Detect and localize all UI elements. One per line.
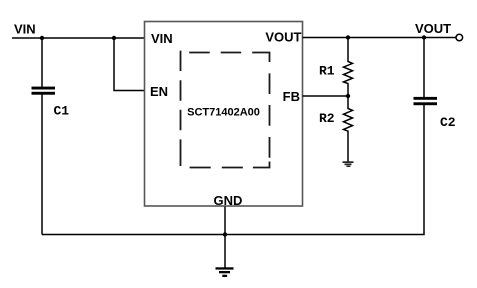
svg-text:VIN: VIN (14, 22, 36, 37)
wire VIN input rail (12, 37, 144, 39)
wire GND pin lead (224, 207, 226, 235)
node junction FB/R1/R2 (346, 94, 350, 98)
svg-text:VIN: VIN (151, 31, 173, 46)
svg-text:VOUT: VOUT (415, 21, 451, 36)
node junction GND rail (223, 232, 227, 236)
svg-text:GND: GND (214, 193, 243, 208)
svg-text:EN: EN (150, 84, 168, 99)
ground (earth symbol) (216, 267, 234, 277)
svg-text:C1: C1 (54, 104, 70, 119)
wire ground stub (224, 235, 226, 268)
wire EN branch (114, 38, 144, 91)
wire ground rail (42, 234, 425, 236)
dashed internal block (181, 51, 270, 168)
node junction VIN/EN (112, 36, 116, 40)
wire C2 bottom lead (423, 105, 425, 235)
wire FB (303, 95, 349, 97)
capacitor C2 (414, 97, 438, 105)
node junction VIN/C1 (40, 36, 44, 40)
svg-text:VOUT: VOUT (265, 30, 301, 45)
svg-text:R1: R1 (319, 64, 335, 79)
op-amp U1 SCT71402A00 body (145, 22, 303, 207)
node junction VOUT/C2 (422, 35, 426, 39)
svg-text:SCT71402A00: SCT71402A00 (187, 107, 260, 119)
resistor R2 (344, 96, 353, 162)
wire C2 top lead (423, 38, 425, 98)
wire C1 top lead (41, 38, 43, 87)
node junction VOUT/R1 (346, 35, 350, 39)
capacitor C1 (32, 87, 56, 95)
svg-text:R2: R2 (319, 111, 335, 126)
ground (small, below R2) (343, 161, 354, 167)
svg-text:FB: FB (283, 89, 300, 104)
wire C1 bottom lead (41, 95, 43, 235)
terminal VOUT open circle (456, 34, 463, 41)
wire VOUT output rail (303, 37, 457, 39)
svg-text:C2: C2 (440, 115, 456, 130)
resistor R1 (344, 38, 353, 97)
